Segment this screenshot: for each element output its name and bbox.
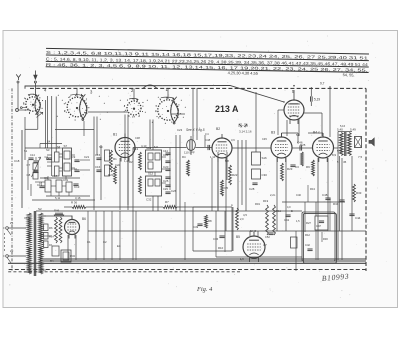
svg-text:R20: R20	[108, 173, 114, 177]
svg-text:1,2: 1,2	[124, 159, 128, 163]
svg-text:S1: S1	[24, 149, 28, 153]
svg-text:S7: S7	[64, 144, 68, 148]
svg-text:3,6: 3,6	[231, 138, 235, 142]
svg-text:4,13: 4,13	[141, 144, 147, 148]
svg-text:R34: R34	[333, 202, 339, 206]
svg-text:B1: B1	[113, 133, 117, 137]
svg-text:R8: R8	[208, 219, 212, 223]
svg-text:Z1: Z1	[10, 221, 14, 225]
svg-text:R22: R22	[232, 173, 238, 177]
svg-text:C23: C23	[177, 128, 183, 132]
svg-text:S16: S16	[262, 156, 268, 160]
svg-text:S3: S3	[46, 148, 50, 152]
svg-text:C16: C16	[95, 165, 101, 169]
svg-text:C48: C48	[322, 193, 328, 197]
svg-text:C8: C8	[27, 173, 31, 177]
svg-text:E4: E4	[117, 244, 121, 248]
svg-text:R46: R46	[54, 209, 60, 213]
svg-text:C4: C4	[45, 155, 49, 159]
svg-text:1,5: 1,5	[296, 219, 300, 223]
svg-text:R19: R19	[255, 202, 260, 206]
svg-text:R27: R27	[306, 221, 311, 225]
svg-text:C25: C25	[163, 179, 169, 183]
svg-text:45: 45	[343, 160, 347, 164]
svg-text:C14: C14	[30, 153, 35, 157]
svg-text:C29: C29	[163, 187, 168, 191]
svg-text:R43: R43	[70, 254, 75, 258]
svg-text:R7: R7	[165, 200, 169, 204]
svg-text:R4: R4	[50, 259, 54, 263]
svg-text:R4: R4	[182, 155, 186, 159]
svg-text:R23: R23	[287, 167, 293, 171]
svg-text:5,19: 5,19	[314, 98, 320, 102]
svg-text:S2: S2	[38, 207, 42, 211]
svg-text:R25: R25	[300, 143, 306, 147]
svg-text:4,0: 4,0	[287, 205, 291, 209]
svg-text:C20: C20	[163, 165, 169, 169]
svg-text:3,4: 3,4	[205, 132, 209, 136]
svg-text:5,49: 5,49	[350, 128, 356, 132]
svg-text:See X Y fig.5: See X Y fig.5	[186, 128, 205, 132]
svg-text:110 5PF: 110 5PF	[184, 151, 195, 155]
svg-text:Fig. 4: Fig. 4	[196, 286, 213, 293]
svg-text:B4 c: B4 c	[313, 131, 320, 135]
svg-text:Z2: Z2	[10, 249, 14, 253]
svg-text:9,7: 9,7	[320, 82, 325, 86]
svg-text:C18: C18	[14, 159, 20, 163]
svg-text:C42: C42	[305, 243, 310, 247]
svg-text:C1: C1	[87, 240, 91, 244]
svg-text:R33: R33	[356, 191, 362, 195]
svg-text:C45: C45	[262, 137, 267, 141]
svg-text:5,40: 5,40	[337, 128, 343, 132]
svg-text:C26: C26	[171, 189, 177, 193]
svg-text:B3: B3	[271, 131, 275, 135]
svg-text:8,9: 8,9	[332, 153, 336, 157]
svg-text:5,11: 5,11	[55, 196, 61, 200]
svg-text:54, 55,: 54, 55,	[343, 72, 355, 77]
svg-text:C40: C40	[296, 193, 301, 197]
svg-text:C32: C32	[146, 198, 152, 202]
svg-text:C36: C36	[213, 237, 219, 241]
svg-text:R17: R17	[52, 174, 58, 178]
svg-text:2,2n: 2,2n	[270, 193, 276, 197]
svg-text:C21: C21	[84, 155, 90, 159]
svg-text:C3: C3	[295, 165, 299, 169]
svg-text:C44: C44	[163, 149, 168, 153]
svg-text:52,19: 52,19	[250, 230, 257, 233]
svg-text:C52: C52	[265, 235, 270, 239]
svg-text:3,14 2,16: 3,14 2,16	[239, 130, 252, 134]
svg-text:C47: C47	[316, 224, 321, 228]
svg-text:2,0: 2,0	[240, 217, 244, 221]
svg-text:C30: C30	[262, 173, 268, 177]
svg-text:C15: C15	[95, 153, 101, 157]
svg-text:S4: S4	[47, 140, 51, 144]
svg-text:R13: R13	[310, 187, 315, 191]
svg-text:S13: S13	[148, 172, 153, 176]
svg-text:B2: B2	[216, 127, 220, 131]
svg-text:4,25,30 4,30 4,: 4,25,30 4,30 4,55	[228, 70, 258, 76]
svg-text:C7: C7	[27, 163, 31, 167]
svg-text:S14: S14	[146, 146, 152, 150]
svg-text:B6: B6	[82, 217, 86, 221]
svg-text:C44: C44	[355, 216, 361, 220]
svg-text:R12: R12	[305, 233, 310, 237]
svg-text:C48: C48	[205, 138, 211, 142]
svg-text:4,7: 4,7	[263, 243, 267, 247]
svg-text:3,16: 3,16	[75, 196, 81, 200]
svg-text:R14: R14	[49, 235, 54, 239]
svg-text:C49: C49	[193, 225, 199, 229]
svg-text:C2: C2	[103, 240, 107, 244]
svg-text:S6: S6	[57, 145, 61, 149]
svg-text:R19: R19	[263, 199, 269, 203]
svg-text:R9: R9	[306, 165, 310, 169]
svg-text:S13: S13	[133, 147, 139, 151]
svg-text:5,8: 5,8	[154, 145, 158, 149]
svg-text:7,5: 7,5	[358, 155, 363, 159]
svg-text:C41: C41	[284, 218, 290, 222]
svg-text:E: E	[291, 209, 293, 213]
svg-text:C9: C9	[72, 155, 76, 159]
svg-text:R11: R11	[276, 209, 281, 213]
svg-text:R30: R30	[323, 237, 328, 241]
svg-text:A: A	[231, 203, 233, 207]
svg-text:R5: R5	[225, 186, 229, 190]
svg-text:C28: C28	[249, 187, 255, 191]
svg-text:4,5: 4,5	[243, 213, 247, 217]
svg-text:1,9: 1,9	[240, 257, 244, 261]
svg-text:R1: R1	[113, 157, 117, 161]
svg-text:C38: C38	[135, 136, 140, 140]
svg-text:R 36: R 36	[71, 201, 77, 205]
svg-text:213 A: 213 A	[215, 103, 239, 114]
svg-text:R6: R6	[49, 226, 53, 230]
svg-text:R10: R10	[218, 246, 224, 250]
svg-text:B5: B5	[236, 235, 240, 239]
svg-text:R2: R2	[129, 160, 133, 164]
